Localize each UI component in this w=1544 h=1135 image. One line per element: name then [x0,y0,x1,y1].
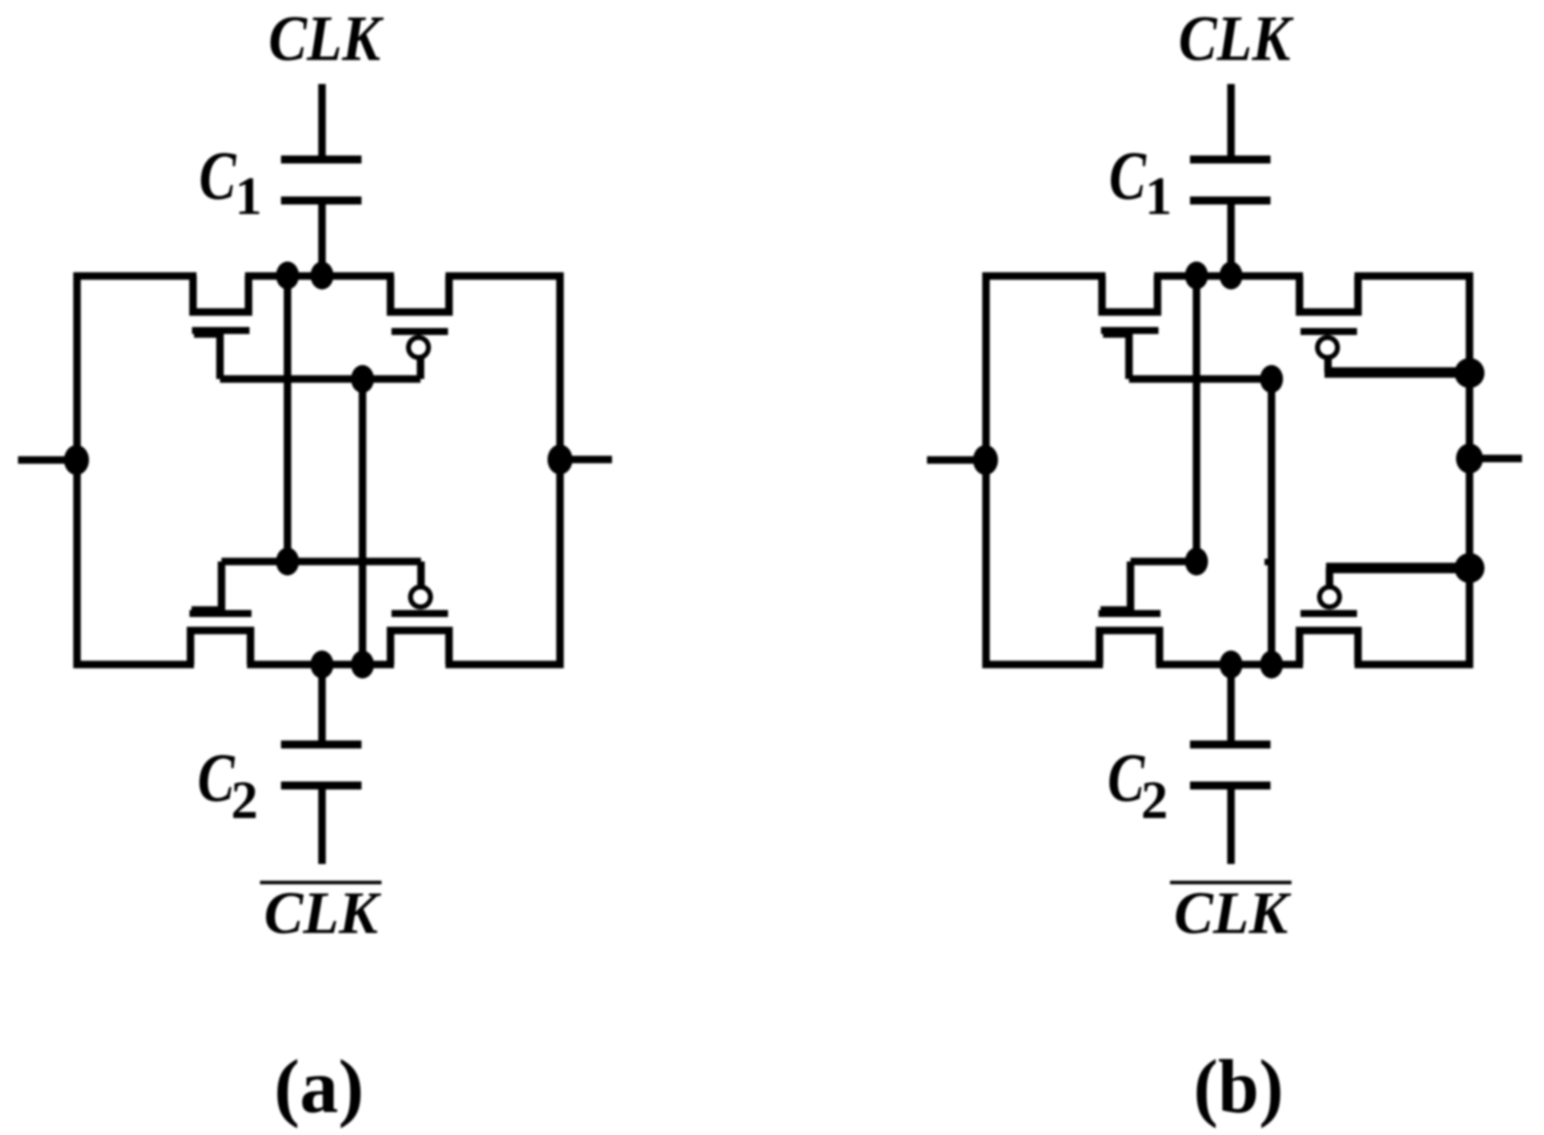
svg-text:(b): (b) [1194,1045,1284,1129]
wire PMOS top gate to drain rail link (b) [1325,358,1470,373]
svg-text:CLK: CLK [264,880,382,946]
junction bottom rail right dot (a) [351,651,374,679]
wire left source rail (a) [77,276,197,665]
wire right drain rail (a) [446,276,561,665]
junction top gate line dot (b) [1260,365,1283,393]
svg-text:2: 2 [1141,770,1168,830]
junction drain rail bottom dot (b) [1455,553,1485,583]
svg-text:CLK: CLK [1174,880,1292,946]
transistor M8 PMOS bottom-right (b) [1300,587,1359,665]
wire left source rail (b) [986,276,1106,665]
wire gate line top (b) [1129,375,1272,383]
junction output node (b) [1456,444,1483,474]
svg-text:CLK: CLK [269,3,384,75]
junction output node (a) [548,445,573,475]
svg-text:(a): (a) [274,1045,364,1129]
node CLKbar label (a) [260,881,382,885]
wire input stub (b) [927,456,986,464]
wire input stub (a) [18,456,77,464]
junction bottom gate line dot (b) [1185,548,1208,576]
capacitor C2 (b) [1190,662,1271,865]
capacitor C1 (b) [1190,84,1271,279]
wire output stub (b) [1470,455,1523,463]
wire top rail middle (a) [245,272,394,280]
transistor M6 PMOS top-right (b) [1300,276,1359,358]
wire cross-couple top-gate to bottom-rail (b) [1268,379,1276,665]
junction drain rail top dot (b) [1455,358,1485,388]
capacitor C1 (a) [281,84,362,279]
junction bottom rail right dot (b) [1260,651,1283,679]
wire cross-couple top-node to bottom-gate (a) [284,276,292,562]
wire cross-couple top-node to bottom-gate (b) [1193,276,1201,562]
junction top rail left dot (a) [276,262,299,290]
junction top rail right dot (a) [311,262,334,290]
wire right drain rail (b) [1355,276,1470,665]
node CLKbar label (b) [1170,881,1292,885]
transistor M3 NMOS bottom-left (a) [190,562,252,665]
wire bottom rail middle (b) [1156,661,1303,669]
transistor M4 PMOS bottom-right (a) [391,562,450,665]
junction top gate line dot (a) [351,365,374,393]
junction top rail right dot (b) [1220,262,1243,290]
wire top rail middle (b) [1154,272,1303,280]
svg-text:2: 2 [231,770,258,830]
junction input node (a) [64,445,89,475]
wire cross-couple bottom-node to top-gate (a) [359,379,367,665]
junction input node (b) [973,445,998,475]
transistor M1 NMOS top-left (a) [192,276,250,379]
svg-text:1: 1 [1145,166,1172,226]
capacitor C2 (a) [281,662,362,865]
svg-text:C: C [199,138,237,214]
junction bottom rail left dot (a) [311,651,334,679]
wire PMOS bottom gate to drain rail link (b) [1326,568,1470,587]
wire gate line bottom (a) [222,558,422,566]
wire output stub (a) [560,456,612,464]
svg-text:1: 1 [235,166,262,226]
junction bottom gate line dot (a) [276,548,299,576]
transistor M7 NMOS bottom-left (b) [1099,562,1161,665]
transistor M2 PMOS top-right (a) [391,276,450,379]
svg-text:CLK: CLK [1179,3,1294,75]
transistor M5 NMOS top-left (b) [1101,276,1159,379]
svg-text:C: C [198,740,236,816]
wire bottom rail middle (a) [247,661,394,669]
svg-text:C: C [1109,138,1147,214]
wire stub artifact on cross wire (b) [1265,559,1272,566]
wire gate line top (a) [220,375,421,383]
junction top rail left dot (b) [1185,262,1208,290]
wire gate line bottom (b) [1131,558,1197,566]
junction bottom rail left dot (b) [1220,651,1243,679]
svg-text:C: C [1108,740,1146,816]
